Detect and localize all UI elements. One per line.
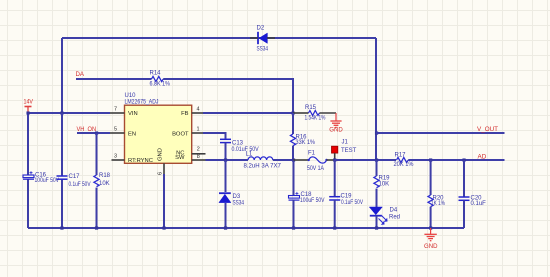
- svg-text:VH_ON: VH_ON: [77, 126, 97, 133]
- diode D2 SS34 on top rail: [250, 26, 275, 53]
- wire x=62 column 14V rail to C17: [61, 113, 63, 176]
- svg-text:10K: 10K: [99, 181, 110, 187]
- wire D3 column down: [225, 160, 227, 192]
- node junction ground/R18: [95, 226, 98, 229]
- wire C20 column from AD rail: [463, 160, 465, 197]
- wire top rail from node above 14V column to V_OUT column: [62, 37, 376, 39]
- node junction F1/J1/C19: [333, 158, 336, 161]
- svg-text:LM22675_ADJ: LM22675_ADJ: [125, 100, 159, 106]
- wire AD rail right segment: [408, 159, 504, 161]
- op-amp U10 LM22675_ADJ regulator body: [125, 93, 192, 163]
- svg-text:RT:RYNC: RT:RYNC: [128, 158, 153, 164]
- svg-text:C13: C13: [232, 141, 244, 147]
- wire DA to R14: [76, 78, 152, 80]
- svg-text:D4: D4: [390, 208, 398, 214]
- wire C19 to ground rail: [334, 200, 336, 228]
- resistor R14 6.8K 1%: [150, 71, 171, 88]
- wire R20 column from AD rail: [430, 160, 432, 195]
- node junction AD/C20: [462, 158, 465, 161]
- svg-text:C19: C19: [341, 194, 353, 200]
- wire R16 to SW node: [292, 146, 294, 160]
- svg-text:50V 1A: 50V 1A: [307, 166, 324, 172]
- svg-text:EN: EN: [128, 132, 136, 138]
- wire ground rail: [28, 227, 464, 229]
- wire L1 to output node: [273, 159, 294, 161]
- node junction EN/R18: [95, 131, 98, 134]
- svg-text:V_OUT: V_OUT: [477, 126, 498, 133]
- svg-text:20K 1%: 20K 1%: [394, 162, 415, 168]
- pin 2 NC: [176, 147, 205, 157]
- svg-text:TEST: TEST: [341, 148, 357, 154]
- svg-text:1.54K 1%: 1.54K 1%: [305, 116, 327, 122]
- resistor R18 10K: [94, 173, 111, 187]
- svg-text:0.1uF 50V: 0.1uF 50V: [341, 200, 363, 206]
- pin 6 GND: [158, 148, 165, 175]
- node junction ground/D3: [224, 226, 227, 229]
- svg-text:F1: F1: [308, 150, 316, 156]
- svg-text:R14: R14: [150, 71, 162, 77]
- svg-text:SS34: SS34: [257, 47, 269, 53]
- wire VH_ON to EN: [77, 132, 110, 134]
- svg-text:BOOT: BOOT: [172, 132, 189, 138]
- svg-text:8: 8: [197, 154, 200, 160]
- resistor R16 33K 1%: [290, 134, 315, 146]
- node junction ground/C18: [292, 226, 295, 229]
- svg-text:1K 1%: 1K 1%: [431, 201, 446, 207]
- resistor R17 20K 1%: [394, 152, 415, 168]
- svg-text:VIN: VIN: [128, 111, 138, 117]
- node junction ground/C19: [333, 226, 336, 229]
- wire C13 to SW rail: [225, 143, 227, 160]
- svg-text:0.1uF: 0.1uF: [471, 201, 487, 207]
- svg-text:L1: L1: [246, 152, 253, 158]
- wire U10 pin6 to ground rail: [163, 174, 165, 228]
- wire BOOT to C13: [203, 133, 226, 139]
- ground symbol GND bottom: [424, 228, 438, 250]
- wire 14V rail to VIN: [28, 112, 110, 114]
- svg-text:7: 7: [114, 107, 117, 113]
- node junction SW/D3/C13: [224, 158, 227, 161]
- node junction ground/R20/GND: [429, 226, 432, 229]
- wire feedback node down to R16: [292, 113, 294, 134]
- node junction ground/pin6: [162, 226, 165, 229]
- svg-text:FB: FB: [181, 111, 189, 117]
- svg-text:R17: R17: [395, 152, 407, 158]
- svg-text:C17: C17: [69, 174, 81, 180]
- test point J1 TEST: [332, 140, 357, 161]
- pin 7 VIN: [110, 107, 138, 117]
- wire R19 to D4: [376, 189, 378, 207]
- svg-text:GND: GND: [329, 126, 343, 133]
- pin 4 FB: [181, 107, 203, 117]
- wire D4 to ground rail: [376, 216, 378, 228]
- node junction L1/R16/C18/F1: [292, 158, 295, 161]
- svg-text:5: 5: [114, 127, 117, 133]
- wire output node down to C18: [293, 160, 295, 196]
- wire C18 to ground rail: [293, 200, 295, 228]
- svg-text:R18: R18: [99, 173, 111, 179]
- inductor L1 8.2uH 3A 7X7: [244, 152, 282, 170]
- node junction V_OUT/x376: [375, 131, 378, 134]
- svg-text:R15: R15: [305, 105, 317, 111]
- node junction ground/C17: [60, 226, 63, 229]
- svg-text:D2: D2: [257, 26, 265, 32]
- pin 1 BOOT: [172, 127, 203, 138]
- wire C16 to ground rail: [27, 179, 29, 228]
- fuse F1 50V 1A: [294, 150, 335, 172]
- svg-text:U10: U10: [125, 93, 137, 99]
- svg-text:14V: 14V: [24, 99, 34, 106]
- svg-text:SW: SW: [175, 155, 185, 161]
- svg-text:Red: Red: [389, 214, 400, 220]
- svg-text:AD: AD: [478, 154, 487, 161]
- svg-text:J1: J1: [342, 140, 349, 146]
- wire R14 to FB node corner: [163, 79, 293, 113]
- wire D3 to ground rail: [225, 203, 227, 228]
- capacitor C20 0.1uF: [459, 196, 487, 208]
- node junction FB feedback node: [291, 111, 294, 114]
- svg-text:GND: GND: [424, 243, 438, 250]
- node junction 14V port: [26, 111, 29, 114]
- svg-text:3: 3: [114, 154, 117, 160]
- resistor R19 10K: [374, 176, 390, 188]
- wire J1 node down to C19: [334, 160, 336, 197]
- svg-text:100uF 50V: 100uF 50V: [35, 178, 60, 184]
- svg-text:100uF 50V: 100uF 50V: [300, 198, 325, 204]
- capacitor C19 0.1uF 50V: [329, 194, 363, 207]
- svg-text:8.2uH 3A 7X7: 8.2uH 3A 7X7: [244, 163, 282, 169]
- svg-text:D3: D3: [233, 194, 241, 200]
- power port 14V: [24, 99, 34, 113]
- node junction AD/R20: [429, 158, 432, 161]
- svg-text:1: 1: [197, 127, 200, 133]
- svg-text:6.8K 1%: 6.8K 1%: [150, 82, 171, 88]
- wire C20 to ground rail: [463, 200, 465, 228]
- diode D3 SS34: [219, 193, 245, 206]
- wire SW pin to L1: [206, 159, 249, 161]
- wire EN junction down to R18: [96, 133, 98, 175]
- capacitor C16 100uF 50V electrolytic: [23, 171, 59, 184]
- svg-text:2: 2: [197, 147, 200, 153]
- svg-text:33K 1%: 33K 1%: [296, 140, 316, 146]
- svg-text:0.1uF 50V: 0.1uF 50V: [69, 182, 91, 188]
- resistor R15 1.54K 1%: [293, 105, 336, 122]
- svg-text:GND: GND: [158, 148, 164, 161]
- LED D4 Red: [369, 207, 400, 224]
- wire C17 to ground rail: [61, 179, 63, 228]
- node junction ground/D4: [375, 226, 378, 229]
- node junction 14V/x62: [60, 111, 63, 114]
- wire V_OUT rail: [376, 132, 505, 134]
- resistor R20 1K 1%: [428, 195, 446, 207]
- svg-text:C18: C18: [301, 192, 313, 198]
- svg-text:SS34: SS34: [233, 201, 245, 207]
- pin 5 EN: [110, 127, 136, 138]
- ground symbol GND at R15: [329, 113, 343, 133]
- svg-text:6: 6: [158, 172, 164, 175]
- svg-text:10K: 10K: [379, 182, 390, 188]
- capacitor C13 0.01uF 50V: [220, 139, 259, 153]
- wire right riser x=376 top rail down to V_OUT and AD rails: [375, 38, 377, 160]
- pin 8 SW: [175, 154, 205, 161]
- svg-text:DA: DA: [76, 71, 85, 78]
- pin 3 RT/SYNC: [112, 154, 153, 164]
- wire 14V column down x=28 to C16: [27, 113, 29, 175]
- capacitor C17 0.1uF 50V: [57, 174, 91, 188]
- wire R19 column from AD junction: [376, 160, 378, 176]
- node junction AD/x376: [375, 158, 378, 161]
- wire left riser x=62 top rail to 14V rail: [61, 38, 63, 113]
- svg-text:4: 4: [197, 107, 200, 113]
- wire R18 to ground rail: [96, 188, 98, 228]
- wire R20 to ground rail: [430, 207, 432, 228]
- capacitor C18 100uF 50V electrolytic: [289, 192, 325, 204]
- wire FB pin to feedback node: [203, 112, 293, 114]
- wire AD rail left segment: [335, 159, 396, 161]
